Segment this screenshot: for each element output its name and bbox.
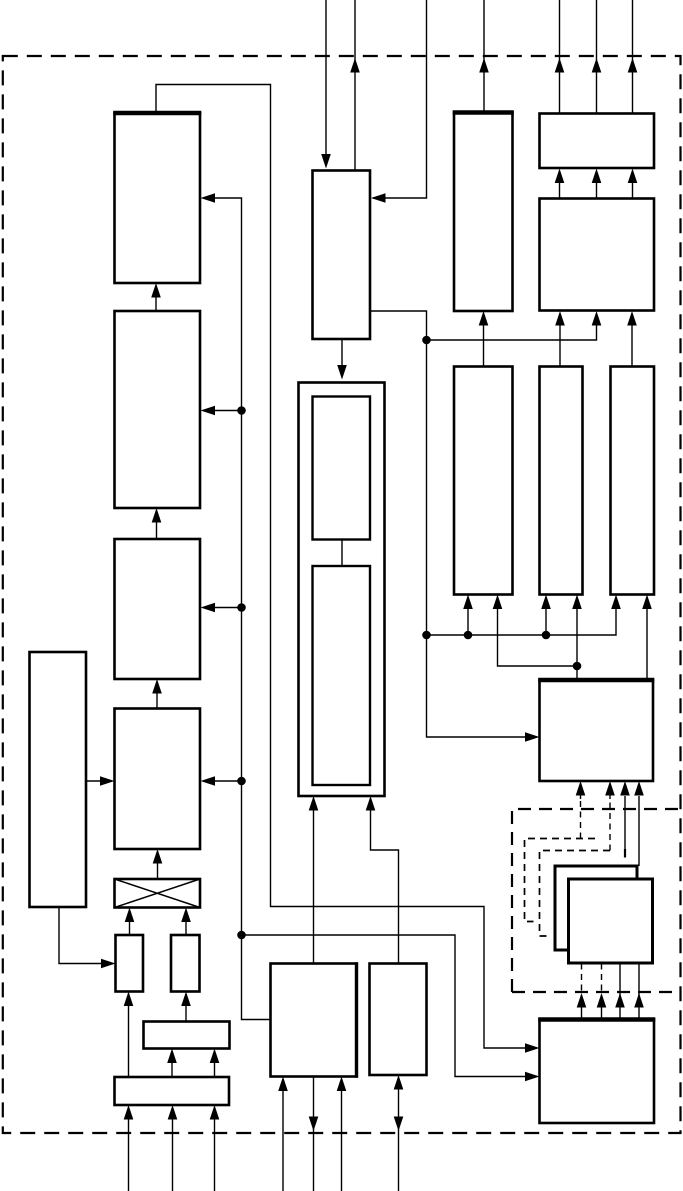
wire: hidden stack block 1 into block CB (dashed) — [576, 781, 586, 839]
block SQ (square, right) — [540, 199, 655, 311]
wire: input from bottom into block M1 (right) — [337, 1077, 347, 1191]
block M1 (bottom middle, thick right edge) — [271, 962, 357, 1078]
wire: block XB into block B4 — [153, 849, 163, 879]
wire: bidirectional line between bottom edge and block M2 — [394, 1075, 404, 1191]
block B2 (left column) — [115, 311, 201, 508]
stack region boundary (dashed) — [512, 809, 681, 992]
junction J1 — [422, 336, 431, 345]
wire: vertical bus from block M1 feeding B1-B4 and block OB — [201, 193, 540, 1081]
wire: J2 down and into block CB left side — [427, 635, 540, 742]
block CB (combiner; thick top edge) — [538, 680, 654, 781]
wire: block C top into block SQ — [627, 311, 637, 367]
stack block S2 (front) — [569, 879, 653, 963]
block WT (wide top right) — [540, 114, 655, 169]
wire: stack block S2 into block CB — [634, 781, 644, 866]
wire: block B4 into block B3 — [152, 679, 162, 709]
block SR (small right) — [171, 935, 200, 992]
wire: block LT bottom into block SL left side — [59, 907, 116, 968]
block B (tall) — [540, 367, 583, 595]
wire: block B2 into block B1 — [151, 283, 161, 311]
wires: block SQ top into block WT (three) — [555, 169, 638, 199]
wire: stack block S1 into block CB — [620, 781, 630, 858]
wires: block WT outputs up through boundary (three) — [555, 0, 638, 114]
wire: block W2 top into block SL — [124, 992, 134, 1078]
wires: block W2 top into block W1 (two) — [167, 1049, 219, 1078]
block DF (double-framed block with two inner blocks) — [299, 383, 385, 797]
junction J2 — [422, 631, 431, 640]
block B4 (left column) — [115, 709, 201, 850]
wire: block MT bottom to double-frame block DF — [337, 339, 347, 380]
wire: block CB top to block C — [642, 595, 652, 681]
block W2 (wide flat lower) — [115, 1077, 230, 1105]
block XB (crossed box / multiplier) — [115, 879, 201, 908]
wire: bus2 from block CB top feeding blocks A and B — [493, 595, 582, 681]
wire: block M1 bottom output down through boundary — [309, 1077, 319, 1191]
wire: input from top into block MT — [321, 0, 331, 169]
wire: block MT right output to junction J1 and up into block SQ — [370, 311, 601, 340]
wires: three inputs from bottom into block W2 — [124, 1105, 220, 1191]
wires: blocks SL and SR into block XB — [125, 908, 191, 936]
block W1 (wide flat upper) — [144, 1022, 230, 1049]
wire: block B top into block SQ — [555, 311, 565, 367]
block TN (tall narrow; thick top edge) — [453, 113, 514, 312]
wire: block M1 top up into block DF bottom — [309, 796, 319, 964]
wire: block W1 top into block SR — [181, 992, 191, 1022]
wire: block LT into block B4 left side — [86, 776, 115, 786]
wire: input from top into right side of block MT — [371, 0, 427, 203]
stack block S1 (behind) — [555, 866, 637, 950]
block A (tall) — [454, 367, 513, 595]
block OB (output block; thick top edge) — [538, 1020, 655, 1124]
wire: input from bottom into block M1 (left) — [278, 1077, 288, 1191]
wire: block M2 top up into block DF bottom — [366, 796, 399, 964]
block MT (middle top) — [313, 171, 371, 340]
wire: block A top into block TN — [479, 311, 489, 367]
block B1 (left column, top; thick top edge) — [113, 113, 201, 283]
wire: hidden stack block 2 into block CB (dashed) — [605, 781, 615, 851]
block B3 (left column) — [115, 539, 201, 679]
block M2 (bottom middle right) — [370, 964, 427, 1076]
wire: bus1 from J2 feeding blocks A, B, C — [427, 595, 621, 640]
wire: feedback from block B1 top around to block OB left side — [156, 85, 540, 1053]
hidden stack block 2 (dashed partial outline) — [540, 851, 611, 937]
wire: block B3 into block B2 — [152, 508, 162, 539]
wire: block TN output up through boundary — [479, 0, 489, 113]
wire: J1 down to junction J2 — [426, 340, 428, 635]
hidden stack block 1 (dashed partial outline) — [525, 839, 596, 922]
block LT (left tall) — [30, 652, 87, 907]
block SL (small left) — [116, 935, 144, 992]
block C (tall) — [611, 367, 655, 595]
wires: block OB up into stack blocks (two dashed, two solid) — [577, 964, 644, 1020]
wire: output of block MT up through boundary — [350, 0, 360, 171]
